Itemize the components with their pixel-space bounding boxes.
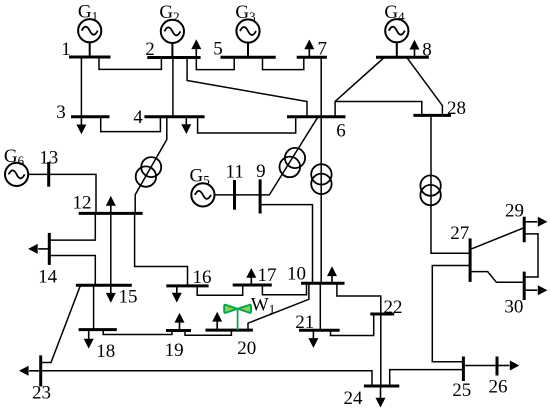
svg-text:8: 8 [422, 39, 432, 60]
svg-text:14: 14 [38, 267, 58, 288]
svg-text:19: 19 [165, 340, 184, 361]
svg-text:23: 23 [32, 383, 51, 404]
svg-text:17: 17 [258, 265, 277, 286]
svg-text:27: 27 [450, 223, 469, 244]
svg-text:21: 21 [295, 312, 314, 333]
svg-text:15: 15 [119, 287, 138, 308]
svg-text:25: 25 [452, 380, 471, 401]
svg-text:11: 11 [226, 162, 244, 183]
svg-text:9: 9 [256, 161, 266, 182]
svg-text:20: 20 [237, 338, 256, 359]
svg-text:12: 12 [73, 193, 92, 214]
svg-text:4: 4 [133, 107, 143, 128]
svg-text:18: 18 [96, 341, 115, 362]
svg-text:30: 30 [504, 297, 523, 318]
svg-text:13: 13 [39, 148, 58, 169]
svg-text:2: 2 [145, 39, 155, 60]
svg-text:26: 26 [489, 377, 508, 398]
svg-text:29: 29 [505, 201, 524, 222]
svg-text:10: 10 [287, 264, 306, 285]
svg-text:3: 3 [56, 102, 66, 123]
svg-text:24: 24 [344, 388, 364, 409]
svg-text:16: 16 [193, 267, 212, 288]
svg-text:22: 22 [384, 297, 403, 318]
svg-text:5: 5 [213, 39, 223, 60]
svg-text:6: 6 [336, 120, 346, 141]
svg-text:1: 1 [61, 39, 71, 60]
svg-text:28: 28 [447, 98, 466, 119]
svg-text:7: 7 [318, 39, 328, 60]
